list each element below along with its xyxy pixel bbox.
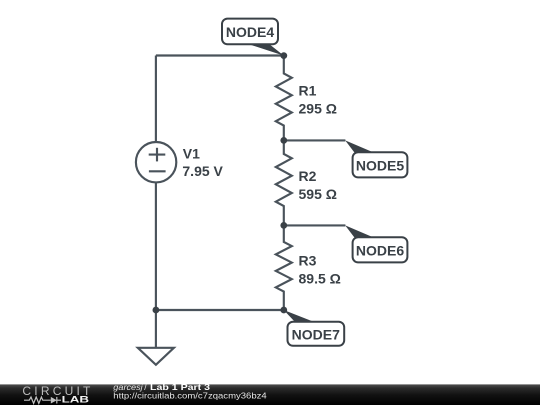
footer title text [113,382,210,392]
node NODE5 [345,140,407,177]
svg-text:NODE7: NODE7 [292,326,340,342]
label R1 295 ohm [299,83,337,117]
junction dot NODE4 [280,52,287,59]
node NODE7 [284,310,345,346]
svg-text:89.5 Ω: 89.5 Ω [299,270,341,286]
voltage source V1 [136,142,176,182]
CircuitLab logo resistor-diode squiggle [24,397,61,404]
svg-text:NODE4: NODE4 [226,24,274,40]
wire bottom horizontal [156,309,284,311]
node NODE6 [345,225,407,262]
svg-text:R3: R3 [299,253,317,269]
footer bar [0,384,540,405]
wire top horizontal [156,54,284,56]
svg-text:LAB: LAB [62,395,90,405]
svg-text:295 Ω: 295 Ω [299,100,337,116]
junction dot NODE5 [280,137,287,144]
wire to NODE5 [284,139,346,141]
junction dot NODE7 [280,307,287,314]
resistor R1 [276,56,292,141]
label V1 7.95 V [182,146,223,179]
ground [138,310,174,365]
resistor R3 [276,225,292,310]
svg-text:7.95 V: 7.95 V [182,163,223,179]
resistor R2 [276,140,292,225]
wire to NODE6 [284,224,346,226]
junction dot NODE6 [280,222,287,229]
svg-text:NODE5: NODE5 [356,157,404,173]
label R2 595 ohm [299,168,337,202]
junction dot ground [153,307,160,314]
node NODE4 [222,19,284,56]
svg-text:595 Ω: 595 Ω [299,186,337,202]
svg-text:NODE6: NODE6 [356,242,404,258]
svg-text:R2: R2 [299,168,317,184]
wire left vertical lower [155,182,157,310]
label R3 89.5 ohm [299,253,341,287]
svg-text:V1: V1 [183,146,200,162]
wire left vertical upper [155,56,157,142]
svg-text:http://circuitlab.com/c7zqacmy: http://circuitlab.com/c7zqacmy36bz4 [113,390,267,400]
svg-text:R1: R1 [299,83,317,99]
